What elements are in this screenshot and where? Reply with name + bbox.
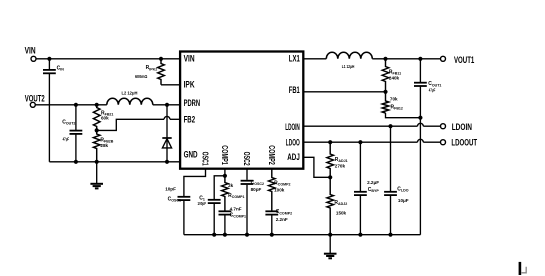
node LDOOUT terminal (441, 140, 446, 145)
pin OSC1 (201, 152, 210, 166)
junction rail RADJ2 (328, 233, 332, 237)
svg-text:COSC2: COSC2 (251, 180, 264, 186)
svg-text:COUT1: COUT1 (428, 81, 441, 87)
wire RFB12 to COUT1 branch (386, 113, 421, 118)
svg-text:FB2: FB2 (184, 114, 196, 124)
svg-text:FB1: FB1 (289, 85, 300, 95)
svg-text:CCOMP1: CCOMP1 (230, 212, 246, 218)
resistor RCOMP2 (268, 169, 275, 211)
junction rail C22 (358, 233, 362, 237)
svg-text:CIN: CIN (57, 66, 65, 72)
svg-text:100pF: 100pF (198, 201, 207, 206)
svg-text:RCOMP2: RCOMP2 (274, 181, 290, 187)
wire GND rail (49, 161, 180, 163)
resistor RFB21 (93, 105, 100, 131)
svg-text:LDOOUT: LDOOUT (451, 138, 477, 148)
svg-text:VIN: VIN (25, 46, 36, 56)
svg-text:CLDO: CLDO (397, 186, 408, 192)
junction RFB21 top (95, 103, 99, 107)
svg-text:2k: 2k (228, 183, 234, 188)
svg-text:LX1: LX1 (289, 54, 300, 64)
svg-text:LDOO: LDOO (286, 138, 300, 148)
capacitor COSC2 (246, 169, 248, 180)
junction rail C10 (388, 233, 392, 237)
pin COMP2 (267, 145, 276, 165)
junction C10 top (388, 124, 392, 128)
pin COMP1 (220, 145, 229, 165)
svg-text:47μF: 47μF (63, 137, 70, 142)
junction rail C1 (212, 233, 216, 237)
svg-text:240k: 240k (389, 75, 400, 80)
svg-text:CCOMP2: CCOMP2 (276, 209, 292, 215)
junction PDRN-diode (165, 103, 169, 107)
svg-text:150k: 150k (336, 211, 347, 216)
svg-text:2.2μF: 2.2μF (367, 180, 379, 185)
junction COUT1 top (418, 57, 422, 61)
resistor RFB2B (93, 130, 100, 161)
svg-text:10μF: 10μF (398, 198, 409, 203)
node VOUT2 terminal (30, 102, 35, 107)
junction CIN-VIN (47, 57, 51, 61)
svg-text:ADJ: ADJ (287, 152, 300, 162)
wire COMP1 stub (224, 169, 226, 176)
svg-text:COMP2: COMP2 (267, 145, 276, 165)
svg-text:100k: 100k (274, 188, 285, 193)
diode D1 (162, 137, 171, 139)
wire-hop LDOO over COUT1 (418, 139, 424, 142)
capacitor COUT1 (419, 59, 421, 83)
wire FB1 (303, 91, 385, 93)
wire VIN to IC (36, 58, 180, 60)
resistor RCOMP1 (222, 176, 229, 211)
svg-text:VOUT1: VOUT1 (454, 55, 474, 65)
capacitor CBYP (359, 142, 361, 192)
wire C1 route (214, 176, 225, 199)
svg-text:VOUT2: VOUT2 (25, 93, 45, 103)
resistor RIPK2 (158, 59, 165, 85)
junction FB2 divider tap (95, 128, 99, 132)
resistor RFB12 (382, 92, 389, 113)
svg-text:LDOIN: LDOIN (452, 122, 472, 132)
cursor artifact (519, 262, 522, 275)
svg-text:10pF: 10pF (165, 186, 176, 191)
svg-text:RCOMP1: RCOMP1 (228, 193, 244, 199)
wire LDOIN (303, 125, 417, 127)
inductor L2 (107, 98, 153, 105)
svg-text:270k: 270k (335, 164, 346, 169)
wire ADJ route (303, 157, 330, 177)
wire bottom rail (184, 234, 421, 236)
svg-text:CBYP: CBYP (368, 187, 380, 193)
svg-text:OSC2: OSC2 (242, 152, 251, 166)
svg-text:VIN: VIN (184, 54, 195, 64)
capacitor CCOMP1 (219, 210, 232, 212)
svg-text:RADJ1: RADJ1 (335, 157, 348, 163)
junction FB1 tap (383, 90, 387, 94)
capacitor COSC1 (178, 196, 191, 198)
wire IPK (161, 84, 180, 86)
node VIN terminal (31, 56, 36, 61)
svg-text:OSC1: OSC1 (201, 152, 210, 166)
junction RADJ top (328, 140, 332, 144)
junction rail OSC2 (245, 233, 249, 237)
wire PDRN segment (153, 104, 180, 106)
resistor RADJ2 (327, 177, 334, 234)
wire LX1 (303, 58, 326, 60)
node LDOIN terminal (441, 124, 446, 129)
capacitor CLDO (390, 126, 392, 192)
junction COMP1 split (223, 174, 227, 178)
capacitor CIN (48, 59, 50, 70)
junction ADJ tap (328, 175, 332, 179)
IC U1 dual regulator (180, 52, 303, 169)
svg-text:28k: 28k (100, 143, 108, 148)
resistor RADJ1 (327, 142, 334, 177)
wire OSC1 route (184, 169, 206, 196)
ground left (96, 162, 98, 184)
wire VOUT1 (372, 58, 440, 60)
svg-text:RFB12: RFB12 (391, 104, 403, 110)
svg-text:RIPK2: RIPK2 (146, 65, 158, 71)
svg-text:600mΩ: 600mΩ (135, 74, 148, 79)
svg-text:2.2nF: 2.2nF (276, 217, 288, 222)
inductor L1 (326, 52, 372, 59)
svg-text:LDOIN: LDOIN (285, 122, 300, 132)
ground right (329, 235, 331, 254)
resistor RFB11 (382, 59, 389, 92)
wire diode branch (166, 105, 168, 162)
junction RFB12-COUT1 (418, 116, 422, 120)
pin OSC2 (242, 152, 251, 166)
svg-text:60k: 60k (101, 116, 109, 121)
svg-text:47μF: 47μF (429, 87, 436, 92)
wire-hop FB2 over diode (164, 116, 170, 119)
junction RIPK2-VIN (159, 57, 163, 61)
svg-text:IPK: IPK (184, 80, 195, 90)
junction diode-gnd (165, 160, 169, 164)
svg-text:80pF: 80pF (251, 187, 262, 192)
wire-hop LDOIN over COUT1 (418, 123, 424, 126)
svg-text:COUT2: COUT2 (62, 120, 75, 126)
wire VOUT2 segment (36, 104, 107, 106)
junction COUT2 top (74, 103, 78, 107)
svg-text:L1 12μH: L1 12μH (342, 64, 355, 69)
svg-text:RADJ2: RADJ2 (334, 200, 347, 206)
capacitor COUT2 (75, 105, 77, 131)
junction COUT2 bottom (74, 160, 78, 164)
svg-text:70k: 70k (390, 96, 398, 101)
junction RFB11 top (383, 57, 387, 61)
svg-text:4.7nF: 4.7nF (230, 207, 242, 212)
svg-text:PDRN: PDRN (184, 98, 201, 108)
svg-text:COMP1: COMP1 (220, 145, 229, 165)
wire FB2 route (97, 119, 164, 130)
capacitor C1 (208, 199, 221, 201)
svg-text:GND: GND (184, 150, 198, 160)
node VOUT1 terminal (441, 56, 446, 61)
svg-text:L2 12μH: L2 12μH (122, 90, 139, 95)
wire LDOO (303, 141, 417, 143)
junction C22 top (358, 140, 362, 144)
capacitor CCOMP2 (265, 210, 278, 212)
junction RFB2B bottom (95, 160, 99, 164)
junction rail COMP2 (270, 233, 274, 237)
junction rail COMP1 (223, 233, 227, 237)
